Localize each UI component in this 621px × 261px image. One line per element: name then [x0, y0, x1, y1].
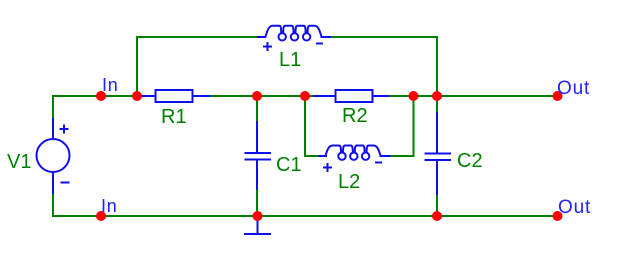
svg-text:Out: Out [557, 78, 590, 99]
wire L1 top left segment [136, 36, 258, 38]
junction dot ground [253, 211, 263, 221]
wire C1 upper stub [256, 96, 258, 122]
junction dot L2 branch right [409, 91, 419, 101]
junction dot node Out top [553, 91, 563, 101]
wire left rail upper [52, 95, 54, 119]
junction dot node In top [96, 91, 106, 101]
wire C2 upper stub [436, 96, 438, 113]
wire L2 branch right horizontal [390, 155, 415, 157]
wire C2 lower stub [436, 194, 438, 216]
svg-text:In: In [101, 196, 118, 216]
svg-text:L2: L2 [338, 171, 360, 193]
junction dot C2 bottom [432, 211, 442, 221]
svg-text:Out: Out [558, 197, 591, 218]
wire top rail middle segment [211, 95, 314, 97]
svg-text:In: In [102, 75, 119, 95]
inductor L1 [257, 26, 331, 51]
capacitor C2 [425, 112, 452, 195]
junction dot C2 top [432, 91, 442, 101]
inductor L2 [319, 146, 391, 173]
junction dot L2 branch left [300, 91, 310, 101]
wire bottom rail [53, 215, 557, 217]
wire top rail left segment [53, 95, 143, 97]
resistor R2 [313, 90, 389, 102]
svg-text:L1: L1 [279, 49, 301, 71]
resistor R1 [141, 90, 211, 102]
svg-text:C2: C2 [457, 150, 483, 172]
junction dot node In bottom [96, 211, 106, 221]
wire L1 top right segment [330, 36, 438, 38]
svg-text:R1: R1 [161, 106, 187, 128]
junction dot C1 top [252, 91, 262, 101]
svg-text:R2: R2 [342, 105, 368, 127]
junction dot node Out bottom [553, 211, 563, 221]
junction dot L1 tap [132, 91, 142, 101]
wire L1 riser right [436, 36, 438, 96]
wire L2 branch left horizontal [304, 155, 319, 157]
wire L1 riser left [136, 36, 138, 96]
wire L2 branch left riser [304, 96, 306, 157]
wire left rail lower [52, 194, 54, 217]
wire top rail right segment [389, 95, 557, 97]
wire C1 lower stub [256, 189, 258, 216]
wire L2 branch right riser [413, 96, 415, 157]
svg-text:C1: C1 [276, 154, 302, 176]
voltage source V1 [37, 118, 70, 194]
ground [244, 216, 271, 234]
svg-text:V1: V1 [7, 151, 31, 173]
capacitor C1 [245, 121, 272, 190]
